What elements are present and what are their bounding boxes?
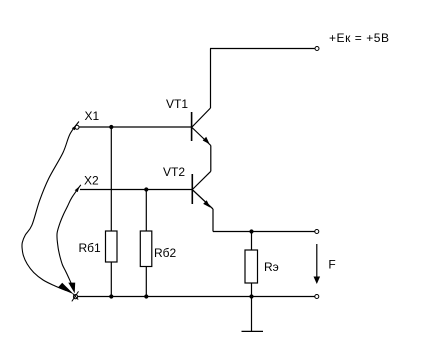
transistor VT1 base bar	[191, 112, 193, 141]
wire Re top lead	[251, 232, 253, 251]
svg-text:Rб2: Rб2	[154, 246, 177, 260]
resistor Re body	[245, 250, 258, 283]
wire bottom rail	[78, 296, 315, 298]
ground bar	[242, 330, 264, 332]
wire +Ek top rail	[210, 48, 315, 50]
transistor VT2 base bar	[191, 174, 193, 204]
ground lead	[251, 297, 253, 332]
wire VT2 collector diagonal	[193, 171, 211, 189]
wire VT1 collector vertical	[210, 49, 212, 109]
curved arrow X2 small head at terminal	[75, 186, 80, 192]
junction dot Rb2 bottom	[144, 294, 148, 298]
terminal output bottom circle	[315, 295, 319, 299]
wire output top rail	[213, 231, 315, 233]
terminal output top circle	[315, 230, 319, 234]
svg-text:X1: X1	[85, 109, 100, 123]
svg-text:X2: X2	[84, 174, 99, 188]
wire VT2 emitter vertical	[212, 209, 214, 232]
wire VT2 emitter diagonal	[193, 190, 213, 209]
node common terminal circle with cross	[72, 291, 79, 301]
F arrowhead	[314, 277, 321, 285]
wire VT1 emitter to VT2 collector vertical	[210, 146, 212, 172]
junction dot Re bottom / ground	[249, 294, 253, 298]
junction dot X2/Rb2	[144, 187, 148, 191]
wire X2 base wire	[80, 189, 192, 191]
wire VT1 collector diagonal	[192, 108, 211, 127]
transistor VT1 emitter arrowhead	[203, 137, 210, 144]
curved arrow big head at node (outer)	[58, 283, 74, 294]
curved arrow from X2 to common node	[57, 185, 81, 284]
curved arrow X1 small head at terminal	[72, 125, 76, 130]
svg-text:Rэ: Rэ	[264, 260, 279, 274]
resistor Rb2 body	[140, 231, 152, 267]
svg-text:+Eк = +5В: +Eк = +5В	[329, 31, 390, 45]
curved arrow from X1 to common node	[22, 122, 79, 291]
terminal +Ek circle	[315, 47, 319, 51]
wire Rb1 top lead	[110, 127, 112, 231]
terminal X1 circle	[75, 125, 79, 129]
wire Rb2 top lead	[145, 190, 147, 232]
junction dot Re top	[249, 229, 253, 233]
wire Rb2 bottom lead	[145, 267, 147, 297]
wire X1 base wire	[79, 126, 192, 128]
wire Rb1 bottom lead	[110, 262, 112, 297]
junction dot Rb1 bottom	[109, 294, 113, 298]
svg-text:F: F	[328, 258, 335, 272]
transistor VT2 emitter arrowhead	[203, 200, 210, 207]
curved arrow big head at node (inner)	[68, 283, 75, 294]
svg-text:VT1: VT1	[166, 97, 188, 111]
svg-text:VT2: VT2	[163, 165, 185, 179]
wire Re bottom lead	[251, 283, 253, 297]
resistor Rb1 body	[106, 231, 118, 262]
wire F arrow shaft	[316, 244, 318, 280]
junction dot X1/Rb1	[109, 125, 113, 129]
svg-text:Rб1: Rб1	[79, 241, 102, 255]
wire VT1 emitter diagonal	[192, 128, 211, 146]
